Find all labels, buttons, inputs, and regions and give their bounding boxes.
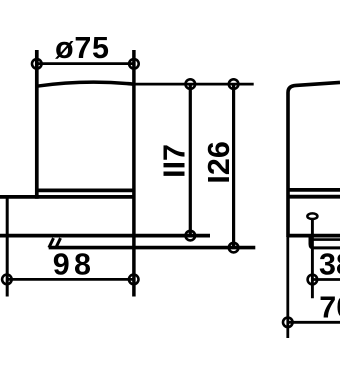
dimension line ø75	[37, 62, 134, 65]
terminator circle left of 98	[2, 275, 12, 285]
terminator circle of 38	[308, 275, 318, 285]
backplate left edge / 98 extension	[6, 197, 9, 297]
backplate bottom edge / 117 reference line	[0, 234, 210, 238]
wall break slash 2	[56, 238, 61, 248]
holder ring front hook and bottom edge side view	[310, 237, 340, 248]
svg-text:98: 98	[53, 248, 91, 282]
backplate top edge side view	[288, 195, 340, 199]
wall break slash 1	[49, 238, 54, 248]
terminator circle bottom of 117	[186, 231, 196, 241]
cup top rim curve	[37, 82, 134, 86]
dimension line 38	[312, 278, 340, 281]
dimension line 70	[288, 321, 340, 324]
backplate bottom edge side view	[288, 234, 340, 238]
terminator circle left of ø75	[32, 59, 42, 69]
extension line from slot down to 38 dim	[311, 219, 314, 298]
holder ring top edge side view	[312, 238, 340, 241]
cup right side / extension line to 98 dim	[132, 50, 136, 297]
svg-text:70: 70	[319, 291, 340, 325]
dimension line 126 vertical	[232, 84, 235, 248]
backplate top edge front view	[0, 195, 134, 199]
terminator circle right of ø75	[129, 59, 139, 69]
terminator circle bottom of 126	[229, 243, 239, 253]
cup bottom edge front view	[37, 188, 134, 192]
svg-text:38: 38	[319, 248, 340, 282]
terminator circle of 70	[283, 318, 293, 328]
svg-text:I26: I26	[202, 141, 236, 183]
dimension line 117 vertical	[189, 84, 192, 236]
terminator circle right of 98	[129, 275, 139, 285]
svg-text:ø75: ø75	[55, 31, 109, 65]
side view outline top and front face	[288, 82, 340, 237]
side view front face extension down to 70 dim	[286, 236, 289, 338]
wall line / 126 reference line	[49, 246, 256, 250]
mounting slot ellipse	[307, 213, 317, 219]
svg-text:II7: II7	[158, 144, 192, 178]
cup left side / extension line	[35, 50, 39, 199]
terminator circle top of 126	[229, 79, 239, 89]
dimension line 98	[7, 278, 134, 281]
reference line from rim to vertical dims	[134, 83, 254, 86]
cup bottom edge side view	[288, 188, 340, 192]
terminator circle top of 117	[186, 79, 196, 89]
